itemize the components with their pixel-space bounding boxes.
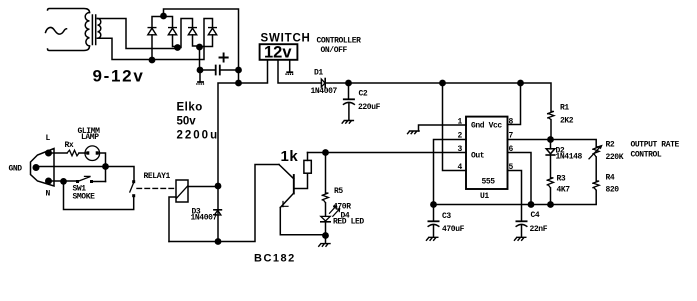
svg-text:U1: U1 [480, 192, 489, 201]
svg-text:820: 820 [606, 186, 620, 195]
svg-text:2: 2 [458, 132, 463, 141]
svg-text:4: 4 [458, 163, 463, 172]
svg-text:470uF: 470uF [442, 225, 465, 234]
svg-text:470R: 470R [333, 203, 351, 212]
svg-text:GND: GND [9, 165, 23, 174]
svg-text:CONTROLLER: CONTROLLER [317, 37, 362, 46]
svg-text:N: N [46, 190, 51, 199]
svg-text:5: 5 [509, 163, 514, 172]
svg-text:1N4007: 1N4007 [191, 214, 218, 223]
svg-text:R5: R5 [334, 187, 343, 196]
svg-text:3: 3 [458, 145, 463, 154]
svg-text:22nF: 22nF [530, 225, 548, 234]
svg-text:50v: 50v [177, 116, 197, 128]
svg-text:4K7: 4K7 [557, 186, 571, 195]
svg-text:ON/OFF: ON/OFF [321, 46, 348, 55]
svg-text:Rx: Rx [65, 141, 74, 150]
svg-text:OUTPUT RATE: OUTPUT RATE [631, 141, 680, 150]
svg-text:2K2: 2K2 [560, 117, 574, 126]
svg-text:12v: 12v [264, 44, 292, 62]
svg-text:BC182: BC182 [254, 253, 296, 265]
svg-text:1k: 1k [281, 148, 299, 165]
svg-text:LAMP: LAMP [81, 133, 99, 142]
svg-text:Gnd Vcc: Gnd Vcc [471, 122, 502, 131]
svg-text:1N4007: 1N4007 [311, 87, 338, 96]
svg-text:1: 1 [458, 118, 463, 127]
svg-text:6: 6 [509, 145, 514, 154]
svg-text:D1: D1 [314, 69, 323, 78]
svg-text:RELAY1: RELAY1 [144, 172, 171, 181]
svg-text:Elko: Elko [177, 102, 203, 114]
svg-text:R1: R1 [560, 104, 569, 113]
svg-text:220K: 220K [606, 153, 624, 162]
svg-text:9-12v: 9-12v [93, 67, 145, 86]
svg-text:R2: R2 [606, 141, 615, 150]
svg-text:8: 8 [509, 118, 514, 127]
svg-text:RED LED: RED LED [333, 218, 364, 227]
svg-text:1N4148: 1N4148 [556, 153, 583, 162]
svg-text:R3: R3 [557, 175, 566, 184]
svg-text:C2: C2 [359, 90, 368, 99]
svg-text:220uF: 220uF [358, 103, 381, 112]
svg-text:CONTROL: CONTROL [631, 151, 662, 160]
svg-text:SMOKE: SMOKE [73, 193, 96, 202]
svg-text:C4: C4 [531, 211, 540, 220]
svg-text:2200u: 2200u [177, 130, 220, 142]
svg-text:555: 555 [482, 178, 496, 187]
svg-text:7: 7 [509, 132, 514, 141]
svg-text:L: L [46, 134, 51, 143]
svg-text:SWITCH: SWITCH [261, 32, 311, 44]
svg-text:C3: C3 [442, 212, 451, 221]
svg-text:R4: R4 [606, 174, 615, 183]
svg-text:Out: Out [471, 152, 485, 161]
